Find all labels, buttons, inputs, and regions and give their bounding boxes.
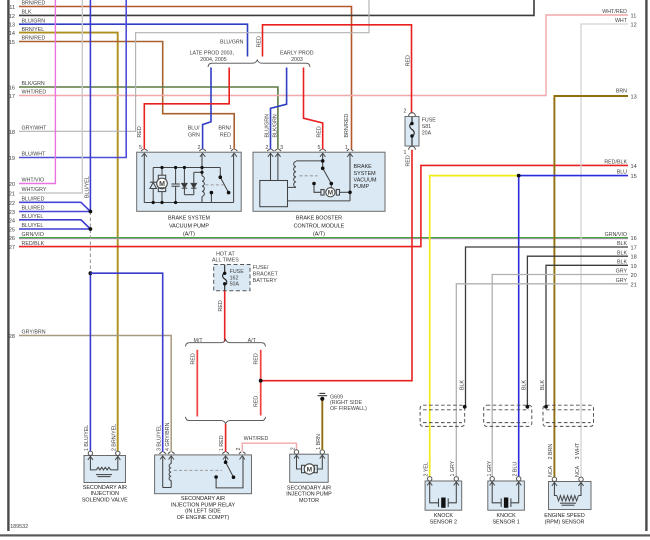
V1 core bars: [96, 474, 112, 476]
svg-text:2: 2: [404, 109, 407, 115]
wire L14 BRN/YEL horizontal, down at x117.7 to solenoid valve pin2: [19, 33, 118, 452]
wire L28 GRY/BRN down at x171.2 to relay pin4: [19, 336, 171, 453]
wire L15 BRN/RED horizontal, to U1 pin1: [19, 42, 234, 150]
svg-text:(A/T): (A/T): [313, 231, 325, 237]
svg-text:BLK/GRN: BLK/GRN: [22, 81, 45, 87]
svg-text:11: 11: [9, 5, 15, 11]
BLU/YEL riser solid to solenoid valve pin1: [89, 273, 91, 452]
U2 NC contact stub to motor: [314, 184, 321, 193]
svg-text:PUMP: PUMP: [354, 184, 370, 190]
fuse S81 box: [405, 117, 419, 147]
svg-text:SENSOR 1: SENSOR 1: [492, 519, 519, 525]
U1 relay switch: [219, 168, 221, 178]
svg-text:M: M: [328, 190, 333, 197]
U1 BRAKE SYSTEM VACUUM PUMP box: [137, 152, 242, 211]
shield S3 around rpm sensor wires: [543, 405, 594, 426]
B2 pin 1 ring: [490, 477, 495, 486]
M1 pin 2 ring: [294, 450, 299, 459]
svg-text:RED: RED: [317, 126, 323, 137]
svg-text:BLU/: BLU/: [188, 126, 200, 132]
U1 top bus: [153, 167, 220, 169]
svg-text:WHT/GRY: WHT/GRY: [22, 187, 47, 193]
svg-text:14: 14: [631, 164, 637, 170]
svg-text:OF ENGINE COMPT): OF ENGINE COMPT): [177, 515, 230, 521]
svg-text:BRACKET: BRACKET: [253, 271, 279, 277]
svg-text:2003: 2003: [291, 57, 303, 63]
svg-text:3 BLU/YEL: 3 BLU/YEL: [157, 425, 163, 451]
svg-text:(RPM) SENSOR: (RPM) SENSOR: [545, 519, 585, 525]
junction dot BLU/YEL split: [517, 174, 521, 178]
svg-text:BLU/RED: BLU/RED: [22, 206, 45, 212]
B3 ENGINE SPEED (RPM) SENSOR box: [549, 482, 592, 510]
svg-text:GRY: GRY: [616, 278, 628, 284]
U2 switch blade: [323, 168, 332, 183]
svg-text:A/T: A/T: [248, 338, 257, 344]
wire RED from fuse162 down to M/T A/T brace: [224, 291, 226, 342]
U2 BRAKE BOOSTER CONTROL MODULE box: [253, 152, 385, 211]
BLU/YEL riser dashed variant segment: [89, 212, 91, 274]
wire L18 GRY/WHT horizontal, joins gray riser x135.6: [19, 0, 369, 131]
svg-text:RED: RED: [220, 132, 231, 138]
svg-text:20: 20: [631, 273, 637, 279]
U2 motor to pin1 lead: [340, 191, 351, 193]
svg-text:BLU: BLU: [617, 169, 627, 175]
V1 internal coil: [90, 456, 96, 470]
B2 piezo element: [492, 481, 501, 507]
wire RED from fuse S81 down to A/T junction: [261, 150, 412, 381]
wire L12 BLK horizontal, turns up at x534: [19, 0, 534, 15]
svg-text:HOT AT: HOT AT: [216, 251, 235, 257]
svg-text:1: 1: [229, 145, 232, 151]
svg-text:162: 162: [230, 275, 239, 281]
U1 relay coil: [201, 153, 203, 176]
svg-text:BLK: BLK: [522, 380, 528, 390]
svg-text:VACUUM: VACUUM: [354, 177, 377, 183]
B3 pickup coil: [554, 482, 556, 496]
svg-text:18: 18: [631, 255, 637, 261]
svg-text:WHT/RED: WHT/RED: [244, 436, 269, 442]
M1 motor tabs: [302, 465, 305, 472]
B3 pin 3 ring: [578, 477, 583, 486]
wire WHT/RED from relay pin2 to pump motor pin2: [242, 443, 296, 451]
svg-text:RED/BLK: RED/BLK: [22, 241, 45, 247]
svg-text:GRY: GRY: [616, 269, 628, 275]
svg-text:2 BLU: 2 BLU: [513, 462, 519, 477]
U2 coil top to pin5 node: [296, 160, 323, 162]
U2 pin5 internal lead: [322, 153, 324, 168]
svg-text:5: 5: [318, 145, 321, 151]
shield S3 drain dot: [544, 405, 548, 409]
page right border: [645, 0, 647, 531]
svg-text:2 BRN/YEL: 2 BRN/YEL: [112, 424, 118, 451]
svg-text:NCA: NCA: [575, 465, 581, 477]
U2 dashed actuation line: [300, 175, 318, 177]
wire RED feeder from fuse S81 to prod brace: [263, 25, 412, 114]
svg-text:16: 16: [631, 236, 637, 242]
svg-text:BLK: BLK: [460, 380, 466, 390]
svg-text:MOTOR: MOTOR: [299, 498, 319, 504]
svg-text:189532: 189532: [10, 524, 28, 530]
svg-text:11: 11: [631, 14, 637, 20]
svg-text:2: 2: [197, 145, 200, 151]
svg-text:SENSOR 2: SENSOR 2: [430, 519, 457, 525]
svg-text:13: 13: [631, 95, 637, 101]
svg-text:21: 21: [631, 282, 637, 288]
junction dot branch to relay: [89, 271, 93, 275]
svg-text:ENGINE SPEED: ENGINE SPEED: [544, 513, 585, 519]
svg-text:(A/T): (A/T): [183, 231, 195, 237]
U2 coil: [294, 162, 296, 188]
svg-text:27: 27: [9, 245, 15, 251]
svg-text:2: 2: [290, 447, 296, 450]
svg-text:ALL TIMES: ALL TIMES: [212, 258, 239, 264]
svg-text:17: 17: [631, 246, 637, 252]
svg-text:BLU/WHT: BLU/WHT: [22, 152, 47, 158]
svg-text:18: 18: [9, 130, 15, 136]
svg-text:BATTERY: BATTERY: [253, 278, 277, 284]
U1 capacitor branch: [175, 168, 177, 184]
svg-text:12: 12: [9, 14, 15, 20]
svg-text:2 YEL: 2 YEL: [424, 462, 430, 476]
svg-text:BLU/GRN: BLU/GRN: [22, 18, 46, 24]
svg-text:3: 3: [280, 145, 283, 151]
K1 pin 1: [222, 452, 229, 460]
svg-text:SOLENOID VALVE: SOLENOID VALVE: [82, 497, 128, 503]
svg-text:3 WHT: 3 WHT: [575, 442, 581, 459]
svg-text:BLU/GRN: BLU/GRN: [220, 40, 244, 46]
svg-text:RED/BLK: RED/BLK: [604, 160, 627, 166]
U1 diode D1 branch: [152, 168, 154, 183]
wire R13 BRN down at x554.4 to RPM sensor pin2: [554, 96, 628, 477]
svg-text:OF FIREWALL): OF FIREWALL): [330, 406, 367, 412]
svg-text:26: 26: [9, 236, 15, 242]
wire RED A/T branch: [260, 350, 262, 416]
svg-text:15: 15: [631, 174, 637, 180]
svg-text:RED: RED: [405, 155, 411, 166]
svg-text:20A: 20A: [422, 131, 432, 137]
M1 SECONDARY AIR INJECTION PUMP MOTOR box: [290, 454, 329, 482]
svg-text:NCA: NCA: [548, 465, 554, 477]
svg-text:2: 2: [236, 448, 242, 451]
K1 SECONDARY AIR INJECTION PUMP RELAY box: [155, 455, 252, 494]
production split brace: [208, 60, 310, 67]
svg-text:12: 12: [631, 23, 637, 29]
svg-text:SECONDARY AIR: SECONDARY AIR: [83, 485, 127, 491]
svg-text:WHT/RED: WHT/RED: [22, 90, 47, 96]
branch wire BLU/YEL to pump relay pin3: [90, 273, 162, 452]
svg-text:BLK: BLK: [617, 241, 627, 247]
B1 piezo element: [430, 481, 439, 507]
svg-text:BLK: BLK: [617, 250, 627, 256]
svg-text:28: 28: [9, 334, 15, 340]
U1 motor branch: [161, 168, 163, 176]
B2 KNOCK SENSOR 1 box: [488, 481, 525, 510]
U2 motor tabs: [321, 190, 324, 196]
svg-text:24: 24: [9, 218, 15, 224]
B1 pin 2 ring: [427, 477, 432, 486]
svg-text:VACUUM PUMP: VACUUM PUMP: [169, 223, 209, 229]
wire R18 BLK down at x527.4 to shield S2: [527, 256, 628, 406]
V1 pin 1 ring: [88, 451, 93, 460]
svg-text:RED: RED: [254, 353, 260, 364]
V1 pin 2 ring: [115, 451, 120, 460]
svg-text:BRAKE: BRAKE: [354, 164, 373, 170]
svg-text:GRN/VIO: GRN/VIO: [605, 232, 627, 238]
svg-text:1: 1: [345, 145, 348, 151]
shield S2 drain dot: [526, 405, 530, 409]
svg-text:INJECTION: INJECTION: [91, 491, 120, 497]
B3 core bars: [560, 502, 576, 504]
U1 right internal lead to pin1: [233, 153, 235, 202]
svg-text:BRAKE BOOSTER: BRAKE BOOSTER: [296, 215, 342, 221]
svg-text:RED: RED: [405, 55, 411, 66]
junction dot A/T feed: [259, 379, 263, 383]
svg-text:KNOCK: KNOCK: [434, 513, 454, 519]
svg-text:SECONDARY AIR: SECONDARY AIR: [287, 486, 331, 492]
svg-text:1 GRY: 1 GRY: [487, 460, 493, 476]
fuse S81 top connector arc, pin 2: [409, 113, 416, 116]
svg-text:19: 19: [9, 156, 15, 162]
svg-text:1 BRN: 1 BRN: [316, 434, 322, 450]
wire L20 WHT/VIO stub joining magenta riser x55.4: [19, 0, 55, 184]
svg-text:WHT/VIO: WHT/VIO: [22, 178, 45, 184]
K1 switch dots: [224, 460, 228, 464]
svg-text:S81: S81: [422, 124, 431, 130]
svg-text:RED: RED: [137, 126, 143, 137]
svg-text:1 GRY: 1 GRY: [450, 460, 456, 476]
fuse 162 element: [223, 265, 227, 291]
svg-text:EARLY PROD: EARLY PROD: [280, 50, 314, 56]
wire RED M/T branch: [196, 350, 198, 417]
svg-text:2004, 2005: 2004, 2005: [200, 57, 227, 63]
wire BLU drop to knock sensor 1 pin2: [518, 176, 520, 477]
M1 pin 1 ring: [320, 450, 325, 459]
svg-text:BLU/YEL: BLU/YEL: [22, 223, 44, 229]
B1 pin 1 ring: [454, 477, 459, 486]
svg-text:5: 5: [139, 145, 142, 151]
wire L16 BLK/GRN horizontal, down at x277.9 to U2 pin3: [19, 87, 278, 150]
K1 dashed actuation line: [174, 469, 222, 471]
U1 pin5 internal lead: [143, 153, 145, 202]
svg-text:RED: RED: [254, 396, 260, 407]
wire RED combined down to relay pin1: [225, 424, 227, 452]
svg-text:GRN/VIO: GRN/VIO: [22, 232, 44, 238]
U1 diode D2 branch: [183, 168, 185, 184]
wire BRN from motor pin1 up to ground G609: [321, 401, 323, 451]
wire YEL branch to knock sensor 2 pin2: [430, 176, 519, 477]
svg-text:RED: RED: [190, 353, 196, 364]
svg-text:GRY/WHT: GRY/WHT: [22, 126, 48, 132]
wire L25 BLU/YEL to junction dot: [19, 228, 90, 230]
shield S1 drain dot: [463, 405, 467, 409]
K1 pin 2: [239, 452, 246, 460]
svg-text:KNOCK: KNOCK: [497, 513, 517, 519]
svg-text:BLU/YEL: BLU/YEL: [22, 214, 44, 220]
svg-text:BRN/YEL: BRN/YEL: [22, 27, 45, 33]
svg-text:23: 23: [9, 210, 15, 216]
wire R21 GRY down at x456.3 to knock sensor 2 pin1: [456, 284, 628, 477]
wire late-prod BLU/GRN branch to U1 pin2: [203, 68, 211, 150]
svg-text:50A: 50A: [230, 282, 240, 288]
svg-text:BRN/RED: BRN/RED: [22, 36, 46, 42]
wire L23 BLU/RED to junction dot: [19, 211, 90, 213]
page bottom separator: [0, 534, 650, 536]
svg-text:BRN/RED: BRN/RED: [344, 113, 350, 137]
svg-text:1 BLU/YEL: 1 BLU/YEL: [84, 425, 90, 451]
U2 pin 2: [267, 149, 274, 157]
U1 bottom bus: [144, 202, 233, 204]
svg-text:14: 14: [9, 31, 15, 37]
svg-text:WHT/RED: WHT/RED: [602, 9, 627, 15]
B2 pin 2 ring: [516, 477, 521, 486]
K1 pin 3: [159, 452, 166, 460]
wire L21 WHT/GRY stub joining gray riser x82.3: [19, 0, 82, 193]
B3 pin 2 ring: [552, 477, 557, 486]
U2 module block: [260, 181, 288, 207]
wire R17 BLK down at x465.5 to shield S1: [466, 247, 629, 407]
shield S2 around knock sensor 1 wires: [484, 405, 532, 426]
wire R19 BLK down at x546 to shield S3: [546, 265, 628, 406]
svg-text:GRN: GRN: [188, 132, 200, 138]
svg-text:2 BRN: 2 BRN: [548, 444, 554, 460]
U2 junction dots: [312, 159, 352, 194]
svg-text:RED: RED: [257, 36, 263, 47]
U1 diode D3 branch: [194, 171, 202, 173]
wire R20 GRY down at x493 to knock sensor 1 pin1: [492, 275, 628, 478]
svg-text:M: M: [159, 181, 165, 188]
page left border: [7, 0, 9, 531]
wire L26 GRN/VIO full width to R16: [19, 237, 628, 239]
B1 KNOCK SENSOR 2 box: [425, 481, 462, 510]
svg-text:22: 22: [9, 201, 15, 207]
svg-text:INJECTION PUMP RELAY: INJECTION PUMP RELAY: [171, 502, 236, 508]
fuse S81 element: [410, 117, 415, 146]
svg-text:1 RED: 1 RED: [219, 435, 225, 451]
U2 pin 1: [347, 149, 354, 157]
svg-text:WHT: WHT: [615, 18, 628, 24]
U2 pin 5: [319, 149, 326, 157]
svg-text:20: 20: [9, 182, 15, 188]
svg-text:BLK: BLK: [540, 380, 546, 390]
svg-text:INJECTION PUMP: INJECTION PUMP: [286, 492, 332, 498]
U2 pin 3: [275, 149, 282, 157]
shield S1 around knock sensor 2 wires: [420, 405, 465, 426]
svg-text:BLU/RED: BLU/RED: [22, 197, 45, 203]
V1 SECONDARY AIR INJECTION SOLENOID VALVE box: [84, 456, 126, 483]
junction dot L23: [89, 210, 93, 214]
wire L19 BLU/WHT horizontal, up at x126.2: [19, 0, 126, 158]
svg-text:BLK/GRN: BLK/GRN: [273, 114, 279, 137]
svg-text:SECONDARY AIR: SECONDARY AIR: [181, 496, 225, 502]
wire L17 WHT/RED horizontal full width, up at x546 to R11: [19, 15, 628, 96]
U1 pin 2: [199, 149, 206, 157]
junction dot L25: [89, 227, 93, 231]
wire late-prod RED branch to U1 pin5: [144, 68, 229, 150]
svg-text:BRAKE SYSTEM: BRAKE SYSTEM: [168, 215, 210, 221]
U1 pin 1: [231, 149, 238, 157]
U2 pin2 internal lead: [270, 153, 272, 180]
svg-text:M/T: M/T: [193, 338, 203, 344]
svg-text:4 GRY/BRN: 4 GRY/BRN: [165, 422, 171, 451]
wire early-prod BLU/GRN branch to U2 pin2: [271, 68, 287, 150]
svg-text:15: 15: [9, 40, 15, 46]
BLU/YEL riser x90.4 solid from top to junction: [89, 0, 91, 212]
svg-text:FUSE: FUSE: [230, 269, 245, 275]
svg-text:BLK: BLK: [617, 260, 627, 266]
K1 NO contact loop to pin2: [216, 456, 243, 488]
wire L27 RED/BLK across, up at x420.9 to R14: [19, 165, 628, 246]
svg-text:16: 16: [9, 86, 15, 92]
svg-text:M: M: [307, 467, 313, 474]
K1 pin 4: [168, 452, 175, 460]
wire R15 BLU from right to junction dot: [519, 175, 628, 177]
svg-text:21: 21: [9, 192, 15, 198]
ground G609 symbol: [320, 397, 324, 401]
transmission split brace top: [186, 340, 266, 347]
svg-text:RED: RED: [218, 300, 224, 311]
U2 link module to coil: [288, 186, 297, 188]
svg-text:(IN LEFT SIDE: (IN LEFT SIDE: [185, 509, 221, 515]
svg-text:19: 19: [631, 264, 637, 270]
wire L11 BRN/RED horizontal, turns down to U2 pin1: [19, 7, 352, 150]
wire L24 BLU/YEL with diagonal into riser: [19, 220, 90, 229]
svg-text:FUSE/: FUSE/: [253, 265, 269, 271]
K1 pin1 lead and switch: [225, 456, 227, 462]
svg-text:BLU/YEL: BLU/YEL: [84, 176, 90, 198]
U1 junction dots: [152, 166, 231, 204]
wire early-prod RED branch to U2 pin5: [304, 68, 323, 150]
svg-text:17: 17: [9, 94, 15, 100]
U2 pin3 internal lead: [277, 153, 279, 180]
svg-text:BRN/RED: BRN/RED: [22, 1, 46, 7]
svg-text:FUSE: FUSE: [422, 118, 437, 124]
fuse 162 dashed bracket box: [214, 265, 250, 291]
svg-text:BRN: BRN: [616, 89, 627, 95]
wire R12 WHT down at x581 to RPM sensor pin3: [581, 24, 628, 477]
U1 pin 5: [141, 149, 148, 157]
fuse S81 bottom connector arc, pin 1: [409, 146, 416, 149]
svg-text:BRN/: BRN/: [218, 126, 231, 132]
transmission split brace bottom: [186, 417, 266, 424]
svg-text:GRY/BRN: GRY/BRN: [22, 330, 46, 336]
M1 internal leads: [297, 454, 302, 469]
svg-text:BLU/GRN: BLU/GRN: [264, 114, 270, 138]
svg-text:SYSTEM: SYSTEM: [354, 171, 377, 177]
K1 coil loop: [162, 456, 164, 487]
svg-text:25: 25: [9, 228, 15, 234]
svg-text:CONTROL MODULE: CONTROL MODULE: [294, 223, 345, 229]
wire L13 BLU/GRN horizontal, turns down at x247.5 toward prod brace: [19, 24, 248, 56]
svg-text:1: 1: [404, 150, 407, 156]
svg-text:2: 2: [265, 145, 268, 151]
svg-text:13: 13: [9, 23, 15, 29]
svg-text:LATE PROD 2003,: LATE PROD 2003,: [190, 50, 234, 56]
svg-text:BLK: BLK: [22, 10, 32, 16]
wire L22 BLU/RED with diagonal into BLU/YEL riser: [19, 202, 90, 211]
